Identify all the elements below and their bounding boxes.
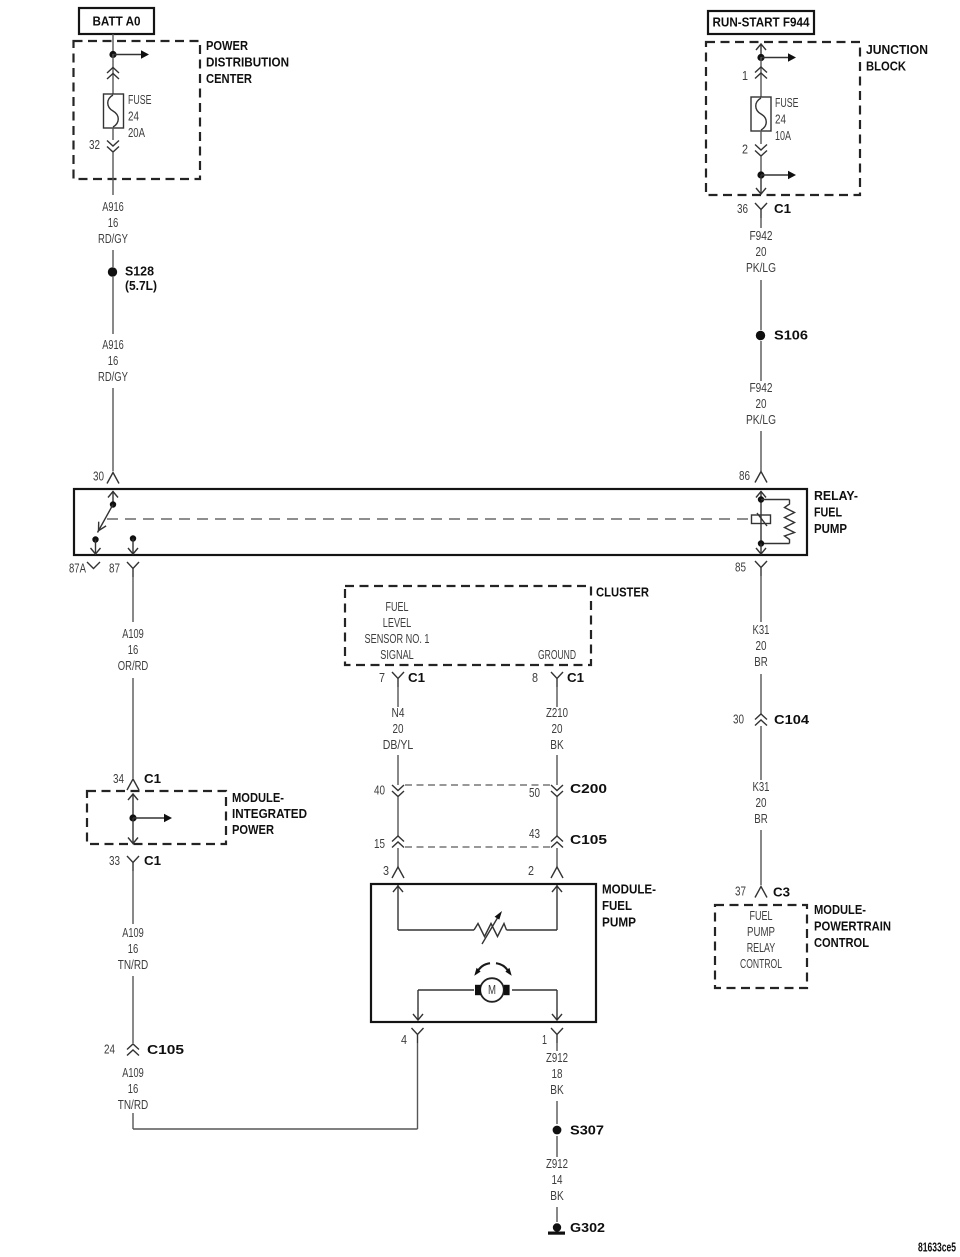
connector C105 24 (104, 1042, 184, 1057)
pin 30 (93, 470, 119, 484)
wire (760, 576, 762, 622)
svg-text:16: 16 (128, 942, 139, 956)
svg-text:POWER: POWER (206, 38, 248, 53)
wire (556, 687, 558, 707)
pin 32 (89, 138, 119, 152)
svg-text:M: M (488, 983, 496, 997)
svg-text:3: 3 (383, 864, 389, 878)
svg-text:MODULE-: MODULE- (814, 902, 866, 917)
wire (112, 128, 114, 195)
svg-text:BLOCK: BLOCK (866, 59, 907, 74)
svg-text:FUSE: FUSE (128, 93, 152, 107)
svg-text:A109: A109 (122, 1066, 144, 1080)
svg-text:SIGNAL: SIGNAL (380, 648, 414, 662)
wire (760, 156, 762, 175)
svg-text:FUEL: FUEL (386, 600, 409, 614)
wire (556, 1207, 558, 1222)
box Module Powertrain Control (715, 905, 807, 988)
label A109 16 TN/RD (118, 926, 149, 972)
svg-text:24: 24 (104, 1043, 115, 1057)
svg-text:FUEL: FUEL (602, 898, 632, 913)
wire (760, 726, 762, 780)
svg-text:50: 50 (529, 786, 540, 800)
label JUNCTION BLOCK (866, 42, 928, 74)
svg-text:CONTROL: CONTROL (814, 935, 869, 950)
splice S128 (108, 264, 157, 294)
node junction MIP (129, 814, 136, 821)
JB exit arrow (756, 175, 766, 194)
svg-text:GROUND: GROUND (538, 648, 576, 662)
pin 36 C1 (737, 201, 791, 218)
svg-text:2: 2 (528, 864, 534, 878)
svg-text:34: 34 (113, 772, 124, 786)
relay coil core (752, 513, 771, 526)
svg-text:81633ce5: 81633ce5 (918, 1240, 956, 1255)
svg-text:INTEGRATED: INTEGRATED (232, 806, 307, 821)
pin 4 (401, 1028, 424, 1047)
svg-text:(5.7L): (5.7L) (125, 278, 157, 293)
svg-text:87: 87 (109, 562, 120, 576)
label FUEL PUMP RELAY CONTROL (740, 909, 782, 971)
svg-text:C1: C1 (567, 670, 584, 685)
variable resistor (fuel level sensor) (398, 911, 557, 944)
svg-text:MODULE-: MODULE- (232, 790, 284, 805)
pin 1 (542, 1028, 563, 1047)
svg-text:LEVEL: LEVEL (383, 616, 412, 630)
pin 7 C1 (379, 670, 425, 687)
label Z210 20 BK (546, 706, 568, 752)
svg-text:C104: C104 (774, 712, 810, 727)
label CLUSTER (596, 585, 649, 600)
wire (398, 797, 557, 836)
svg-text:20: 20 (756, 796, 767, 810)
svg-text:32: 32 (89, 138, 100, 152)
motor right wire (512, 990, 562, 1020)
relay box (74, 489, 807, 555)
svg-text:10A: 10A (775, 129, 791, 143)
connector C104 (733, 712, 810, 727)
svg-text:BK: BK (550, 1083, 564, 1097)
svg-text:RUN-START F944: RUN-START F944 (713, 15, 811, 30)
wire (760, 341, 762, 381)
svg-text:30: 30 (733, 713, 744, 727)
label FUSE 24 10A (775, 96, 799, 143)
svg-text:20: 20 (552, 722, 563, 736)
relay dashed link (107, 518, 748, 520)
connector chevrons PDC (107, 68, 119, 80)
pin 2 (528, 864, 563, 878)
svg-text:DB/YL: DB/YL (383, 738, 414, 752)
label FUEL LEVEL SENSOR NO. 1 SIGNAL (365, 600, 430, 662)
svg-text:POWERTRAIN: POWERTRAIN (814, 919, 891, 934)
pin 87 (109, 562, 139, 578)
svg-text:SENSOR NO. 1: SENSOR NO. 1 (365, 632, 430, 646)
svg-text:BATT A0: BATT A0 (93, 14, 141, 29)
label Z912 14 BK (546, 1157, 568, 1203)
svg-text:20: 20 (756, 639, 767, 653)
svg-text:16: 16 (108, 354, 119, 368)
pin 86 (739, 469, 767, 483)
svg-text:K31: K31 (753, 780, 770, 794)
svg-text:CLUSTER: CLUSTER (596, 585, 649, 600)
svg-text:C1: C1 (408, 670, 425, 685)
wire (397, 755, 399, 785)
label A916 16 RD/GY 2 (98, 338, 128, 384)
box Module Fuel Pump (371, 884, 596, 1022)
label MODULE- FUEL PUMP (602, 882, 656, 930)
svg-text:S106: S106 (774, 328, 808, 343)
wire (760, 57, 762, 97)
connector BATT A0 (79, 8, 154, 34)
svg-text:BR: BR (754, 655, 768, 669)
svg-text:F942: F942 (750, 229, 773, 243)
svg-text:30: 30 (93, 470, 104, 484)
fuse FUSE 24 10A (751, 97, 771, 131)
splice S106 (756, 328, 808, 343)
feed arrow JB 1 (761, 53, 796, 62)
label F942 20 PK/LG 2 (746, 381, 776, 427)
wire (760, 431, 762, 471)
svg-text:C1: C1 (144, 771, 161, 786)
svg-text:Z912: Z912 (546, 1051, 568, 1065)
svg-text:C1: C1 (774, 201, 791, 216)
node junction JB 2 (757, 171, 764, 178)
label K31 20 BR 2 (753, 780, 770, 826)
box Cluster (345, 586, 591, 665)
wire (132, 678, 134, 778)
svg-text:FUEL: FUEL (750, 909, 773, 923)
pin 37 C3 (735, 885, 790, 900)
fuse FUSE 24 20A (104, 94, 124, 128)
motor M (475, 978, 510, 1002)
svg-text:1: 1 (542, 1033, 547, 1047)
label N4 20 DB/YL (383, 706, 414, 752)
svg-text:40: 40 (374, 784, 385, 798)
wire (132, 976, 134, 1043)
svg-text:37: 37 (735, 885, 746, 899)
svg-text:43: 43 (529, 827, 540, 841)
svg-text:TN/RD: TN/RD (118, 958, 149, 972)
connector C105 (374, 827, 607, 851)
wire (760, 218, 762, 228)
svg-text:20: 20 (756, 245, 767, 259)
relay node 85 (756, 540, 766, 554)
feed arrow MIP (133, 814, 172, 823)
label MODULE- INTEGRATED POWER (232, 790, 307, 837)
svg-text:C200: C200 (570, 781, 607, 796)
label A109 16 OR/RD (118, 627, 149, 673)
relay coil winding (761, 500, 795, 544)
label POWER DISTRIBUTION CENTER (206, 38, 289, 86)
svg-text:A109: A109 (122, 627, 144, 641)
svg-text:85: 85 (735, 561, 746, 575)
connector C200 (374, 781, 607, 800)
splice S307 (553, 1123, 604, 1138)
svg-text:16: 16 (108, 216, 119, 230)
wire (112, 250, 114, 267)
svg-text:S307: S307 (570, 1123, 604, 1138)
box Module Integrated Power (87, 791, 226, 844)
label RELAY- FUEL PUMP (814, 488, 858, 536)
wire (556, 755, 558, 785)
svg-text:24: 24 (128, 110, 139, 124)
svg-text:4: 4 (401, 1033, 407, 1047)
pin 34 C1 (113, 771, 161, 790)
pin 3 (383, 864, 404, 878)
label Z912 18 BK (546, 1051, 568, 1097)
ground G302 (548, 1220, 605, 1235)
svg-text:87A: 87A (69, 562, 86, 576)
svg-text:7: 7 (379, 671, 385, 685)
svg-text:A916: A916 (102, 338, 124, 352)
svg-text:PK/LG: PK/LG (746, 413, 776, 427)
svg-text:FUSE: FUSE (775, 96, 799, 110)
module pin 3 entry (393, 885, 403, 930)
label A916 16 RD/GY (98, 200, 128, 246)
wire (112, 277, 114, 334)
svg-text:BK: BK (550, 1189, 564, 1203)
svg-text:2: 2 (742, 143, 748, 157)
svg-text:36: 36 (737, 202, 748, 216)
svg-text:16: 16 (128, 1082, 139, 1096)
pin 2 chevrons (742, 143, 767, 157)
svg-text:20A: 20A (128, 126, 145, 140)
relay pin 30 entry (108, 491, 118, 508)
svg-text:33: 33 (109, 854, 120, 868)
wire (398, 848, 557, 867)
svg-text:1: 1 (742, 69, 748, 83)
node junction JB 1 (757, 54, 764, 61)
JB top arrow (756, 44, 766, 57)
svg-text:14: 14 (552, 1173, 563, 1187)
wire (112, 34, 114, 54)
svg-text:RELAY-: RELAY- (814, 488, 858, 503)
node junction PDC (109, 51, 116, 58)
svg-text:POWER: POWER (232, 822, 274, 837)
svg-text:MODULE-: MODULE- (602, 882, 656, 897)
svg-text:86: 86 (739, 469, 750, 483)
wire (112, 388, 114, 471)
label A109 16 TN/RD 2 (118, 1066, 149, 1112)
svg-text:TN/RD: TN/RD (118, 1098, 149, 1112)
svg-text:JUNCTION: JUNCTION (866, 42, 928, 57)
svg-text:Z912: Z912 (546, 1157, 568, 1171)
svg-text:F942: F942 (750, 381, 773, 395)
svg-text:C3: C3 (773, 885, 790, 900)
svg-text:N4: N4 (392, 706, 405, 720)
MIP up arrow (128, 794, 138, 818)
label MODULE- POWERTRAIN CONTROL (814, 902, 891, 950)
svg-text:BK: BK (550, 738, 564, 752)
svg-text:FUEL: FUEL (814, 505, 842, 520)
relay node 87A (91, 536, 101, 554)
pin 1 chevrons (742, 67, 767, 83)
svg-text:A109: A109 (122, 926, 144, 940)
svg-text:PUMP: PUMP (747, 925, 775, 939)
svg-text:24: 24 (775, 113, 786, 127)
svg-text:CONTROL: CONTROL (740, 957, 782, 971)
wire (760, 830, 762, 885)
motor left wire (413, 990, 474, 1020)
MIP down arrow (128, 818, 138, 844)
svg-text:8: 8 (532, 671, 538, 685)
svg-text:K31: K31 (753, 623, 770, 637)
wire (132, 871, 134, 924)
svg-text:C105: C105 (147, 1042, 184, 1057)
svg-text:A916: A916 (102, 200, 124, 214)
svg-text:PUMP: PUMP (602, 915, 636, 930)
svg-text:OR/RD: OR/RD (118, 659, 149, 673)
pin 8 C1 (532, 670, 584, 687)
wire (556, 1101, 558, 1124)
svg-text:S128: S128 (125, 264, 154, 279)
pin 33 C1 (109, 853, 161, 871)
wire (556, 1136, 558, 1157)
svg-text:RD/GY: RD/GY (98, 232, 128, 246)
wire to fuel pump pin 4 (133, 1043, 418, 1129)
feed arrow PDC (113, 50, 149, 59)
pin 85 (735, 561, 767, 577)
label K31 20 BR (753, 623, 770, 669)
svg-text:RD/GY: RD/GY (98, 370, 128, 384)
svg-text:CENTER: CENTER (206, 71, 252, 86)
relay switch arm (98, 505, 114, 533)
svg-text:20: 20 (756, 397, 767, 411)
svg-text:PK/LG: PK/LG (746, 261, 776, 275)
rotation arrows (474, 963, 511, 976)
label FUSE 24 20A (128, 93, 152, 140)
wire (112, 54, 114, 94)
svg-text:Z210: Z210 (546, 706, 568, 720)
label GROUND (538, 648, 576, 662)
wire (760, 131, 762, 144)
pin 87A (69, 562, 100, 576)
wire (760, 280, 762, 330)
svg-text:G302: G302 (570, 1220, 605, 1235)
svg-text:PUMP: PUMP (814, 521, 847, 536)
box Power Distribution Center (74, 41, 201, 179)
svg-text:BR: BR (754, 812, 768, 826)
svg-text:16: 16 (128, 643, 139, 657)
label drawing number (918, 1240, 956, 1255)
wire (556, 1043, 558, 1051)
label F942 20 PK/LG (746, 229, 776, 275)
wire (397, 687, 399, 707)
svg-text:18: 18 (552, 1067, 563, 1081)
relay pin 86 entry (756, 491, 766, 544)
wire (132, 577, 134, 622)
svg-text:DISTRIBUTION: DISTRIBUTION (206, 55, 289, 70)
relay node 87 (128, 535, 138, 554)
box Junction Block (706, 42, 860, 195)
svg-text:C105: C105 (570, 832, 607, 847)
svg-text:RELAY: RELAY (747, 941, 776, 955)
svg-text:15: 15 (374, 837, 385, 851)
wire (760, 674, 762, 714)
svg-text:20: 20 (393, 722, 404, 736)
connector RUN-START F944 (708, 11, 814, 34)
feed arrow JB 2 (761, 171, 796, 180)
module pin 2 entry (552, 885, 562, 930)
svg-text:C1: C1 (144, 853, 161, 868)
